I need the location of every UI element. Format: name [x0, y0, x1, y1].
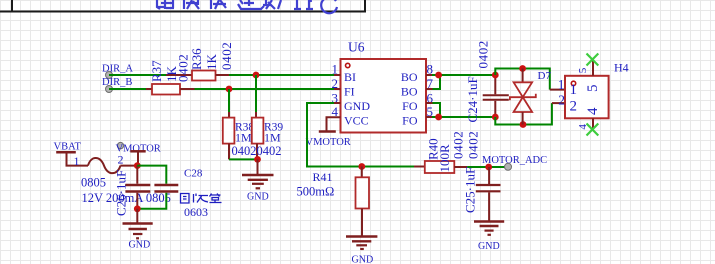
svg-text:2: 2: [570, 99, 578, 115]
sheet border: [0, 0, 366, 12]
capacitor C24: [465, 40, 509, 122]
wire drop to R38: [228, 89, 230, 112]
svg-text:4: 4: [585, 107, 601, 115]
svg-text:C26·1uF: C26·1uF: [114, 170, 129, 216]
svg-text:1: 1: [570, 82, 578, 98]
svg-text:1: 1: [558, 77, 565, 92]
junction: [358, 163, 365, 170]
junction: [134, 162, 141, 169]
svg-text:FO: FO: [402, 114, 418, 128]
junction: [253, 72, 260, 79]
wire U6 pin3 to sense rail: [307, 103, 414, 167]
wire drop to R39: [255, 75, 257, 112]
svg-text:BI: BI: [344, 70, 356, 84]
net label MOTOR_ADC: [482, 155, 547, 170]
svg-text:GND: GND: [352, 255, 374, 264]
svg-text:U6: U6: [348, 40, 365, 55]
svg-text:R41: R41: [313, 170, 333, 184]
wire: [229, 158, 258, 160]
svg-text:1: 1: [74, 154, 80, 168]
wire bottom rail: [495, 103, 552, 124]
svg-text:GND: GND: [478, 241, 500, 252]
resistor R39: [252, 112, 284, 159]
wire U6 pin5 to rail: [432, 116, 495, 118]
resistor R38: [223, 112, 257, 159]
svg-text:0402: 0402: [476, 40, 491, 68]
svg-text:C25·1uF: C25·1uF: [463, 167, 478, 213]
junction: [485, 164, 492, 171]
power bar VMOTOR: [130, 151, 145, 165]
resistor R41: [297, 167, 370, 209]
junction: [254, 156, 261, 163]
svg-text:R37: R37: [149, 60, 164, 82]
IC U6: [332, 40, 434, 133]
resistor R40: [414, 131, 481, 173]
svg-text:2: 2: [118, 153, 124, 167]
svg-text:D7: D7: [538, 70, 552, 82]
svg-text:1K: 1K: [204, 54, 219, 71]
net label DIR_A: [102, 64, 133, 79]
svg-text:C28: C28: [184, 168, 203, 180]
net label DIR_B: [102, 77, 132, 93]
svg-text:5: 5: [585, 85, 601, 93]
svg-text:2: 2: [558, 92, 565, 107]
junction: [134, 205, 141, 212]
svg-text:GND: GND: [129, 240, 151, 251]
svg-text:500mΩ: 500mΩ: [297, 185, 335, 199]
junction: [520, 121, 527, 128]
ground: [123, 209, 153, 251]
svg-text:R36: R36: [189, 48, 204, 70]
svg-text:0603: 0603: [184, 205, 208, 219]
net label VMOTOR: [116, 142, 161, 154]
svg-text:5: 5: [577, 67, 589, 73]
wire pin7 join: [433, 75, 441, 89]
svg-text:VMOTOR: VMOTOR: [306, 137, 351, 148]
svg-text:0805: 0805: [81, 176, 106, 190]
power VMOTOR (U6 VCC): [306, 117, 351, 148]
wire DIR_B: [109, 88, 146, 90]
svg-text:0402: 0402: [232, 144, 257, 158]
pin stubs: [334, 75, 433, 117]
wire DIR_A: [109, 74, 166, 76]
fuse F (resettable): [81, 153, 208, 220]
svg-text:H4: H4: [614, 61, 629, 75]
resistor R36: [166, 42, 234, 81]
svg-text:MOTOR_ADC: MOTOR_ADC: [482, 155, 547, 166]
capacitor C28: [137, 166, 203, 209]
svg-text:1M: 1M: [264, 131, 281, 145]
svg-text:1M: 1M: [235, 131, 252, 145]
svg-text:BO: BO: [401, 85, 418, 99]
resistor R37: [146, 54, 195, 95]
svg-text:GND: GND: [344, 99, 370, 113]
svg-text:0402: 0402: [451, 131, 466, 159]
junction: [435, 72, 442, 79]
wire U6 pin8 to rail: [432, 74, 495, 76]
junction: [492, 72, 499, 79]
svg-text:VBAT: VBAT: [54, 142, 82, 153]
svg-text:0402: 0402: [466, 131, 481, 159]
description 自恢复 (CJK approx): [181, 194, 222, 204]
connector H4: [550, 54, 629, 136]
wire: [467, 166, 506, 168]
wire: [195, 88, 335, 90]
capacitor C26: [114, 166, 151, 216]
svg-text:FI: FI: [344, 85, 355, 99]
no-ERC marker: [587, 124, 599, 136]
wire top rail: [495, 69, 550, 90]
svg-text:C24·1uF: C24·1uF: [465, 76, 480, 122]
no-ERC marker: [587, 54, 599, 66]
svg-text:0402: 0402: [257, 144, 282, 158]
ground: [474, 222, 504, 253]
TVS diode D7: [510, 69, 552, 125]
junction: [519, 65, 526, 72]
capacitor C25: [463, 167, 501, 221]
svg-text:GND: GND: [247, 192, 269, 203]
ground: [346, 209, 377, 264]
ground: [242, 159, 274, 202]
junction: [492, 114, 499, 121]
svg-text:BO: BO: [401, 70, 418, 84]
svg-text:0402: 0402: [176, 54, 191, 82]
wire: [229, 74, 334, 76]
junction: [226, 86, 233, 93]
svg-text:VCC: VCC: [344, 114, 369, 128]
power VBAT: [54, 142, 89, 169]
sheet title (cropped CJK strokes): [157, 0, 337, 13]
wire pin6 join: [433, 103, 441, 117]
junction: [435, 114, 442, 121]
svg-text:FO: FO: [402, 99, 418, 113]
svg-text:0402: 0402: [219, 42, 234, 70]
